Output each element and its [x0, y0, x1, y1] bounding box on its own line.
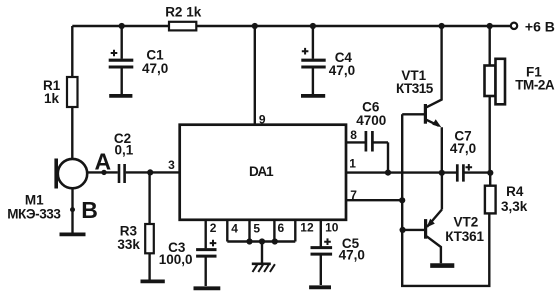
svg-text:КТ315: КТ315 — [396, 81, 434, 96]
svg-text:R4: R4 — [506, 184, 524, 199]
svg-text:4: 4 — [231, 221, 238, 235]
svg-text:33k: 33k — [117, 237, 140, 252]
svg-text:6: 6 — [278, 221, 285, 235]
svg-text:12: 12 — [300, 221, 314, 235]
svg-text:9: 9 — [259, 113, 266, 127]
svg-text:B: B — [81, 197, 98, 223]
svg-text:+6 В: +6 В — [525, 19, 555, 35]
svg-text:ТМ-2А: ТМ-2А — [515, 78, 555, 93]
svg-text:47,0: 47,0 — [142, 61, 168, 76]
svg-text:47,0: 47,0 — [329, 63, 355, 78]
svg-text:0,1: 0,1 — [115, 143, 134, 158]
svg-text:М1: М1 — [25, 193, 44, 208]
svg-text:МКЭ-333: МКЭ-333 — [7, 207, 61, 222]
svg-text:КТ361: КТ361 — [445, 229, 484, 244]
svg-text:100,0: 100,0 — [159, 252, 193, 267]
svg-text:47,0: 47,0 — [339, 248, 365, 263]
svg-text:4700: 4700 — [356, 113, 386, 128]
svg-text:2: 2 — [210, 221, 217, 235]
svg-text:1k: 1k — [44, 91, 60, 106]
svg-text:7: 7 — [350, 188, 357, 202]
svg-text:VT2: VT2 — [454, 214, 479, 229]
svg-text:5: 5 — [253, 221, 260, 235]
svg-text:R2 1k: R2 1k — [165, 4, 202, 19]
svg-text:3,3k: 3,3k — [501, 199, 528, 214]
svg-text:8: 8 — [350, 128, 357, 142]
svg-text:DA1: DA1 — [249, 164, 274, 179]
svg-text:A: A — [95, 148, 112, 174]
svg-text:1: 1 — [349, 157, 356, 171]
svg-text:3: 3 — [168, 158, 175, 172]
svg-text:47,0: 47,0 — [450, 141, 476, 156]
svg-text:10: 10 — [325, 220, 339, 234]
